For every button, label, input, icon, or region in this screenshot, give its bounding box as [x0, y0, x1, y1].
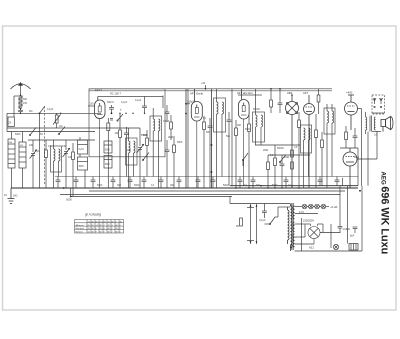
coil L5 osc bandfilter — [126, 128, 138, 188]
capacitor C29 bus — [66, 188, 72, 202]
svg-text:65: 65 — [112, 222, 115, 224]
box padder B2 — [78, 157, 88, 188]
wire stub v6 top — [342, 178, 344, 186]
svg-text:AZ1: AZ1 — [309, 246, 314, 250]
resistor R5 — [115, 113, 122, 188]
svg-text:AB2: AB2 — [287, 91, 293, 95]
node dot b — [60, 113, 61, 114]
svg-text:8µF: 8µF — [350, 235, 355, 238]
svg-text:220/250V: 220/250V — [303, 219, 314, 223]
svg-text:+400: +400 — [346, 91, 353, 95]
resistor R15 — [321, 132, 324, 186]
capacitor C31 electrolytic — [338, 186, 351, 233]
svg-text:2MΩ: 2MΩ — [263, 149, 268, 152]
lamp E2 — [309, 204, 314, 209]
tube V4 — [286, 91, 299, 188]
switch S8 — [279, 155, 286, 163]
svg-text:1M: 1M — [59, 125, 62, 128]
capacitor C6 — [124, 127, 129, 177]
svg-text:AEG 696 WK Luxu: AEG 696 WK Luxu — [378, 172, 390, 255]
svg-text:AF7: AF7 — [303, 91, 309, 95]
coil L8 IF2 pair — [253, 89, 265, 145]
svg-text:0,1µF: 0,1µF — [121, 101, 128, 104]
resistor R21 — [317, 89, 320, 114]
svg-text:70: 70 — [100, 228, 103, 230]
capacitor C23 — [211, 177, 216, 189]
svg-text:20: 20 — [88, 225, 91, 227]
svg-text:45: 45 — [108, 228, 111, 230]
svg-text:50p: 50p — [226, 135, 231, 138]
svg-text:600: 600 — [206, 131, 211, 134]
svg-text:2M: 2M — [29, 110, 32, 113]
svg-text:AL4: AL4 — [354, 155, 359, 159]
capacitor C22 — [196, 177, 201, 189]
box speaker terminals dashed — [372, 95, 385, 114]
svg-text:1MΩ: 1MΩ — [284, 156, 289, 159]
svg-text:249: 249 — [62, 145, 67, 148]
capacitor C2 variable — [30, 140, 38, 188]
wire mains lead N — [256, 204, 258, 244]
svg-text:50: 50 — [92, 228, 95, 230]
tube V5 — [303, 91, 315, 188]
svg-text:300: 300 — [117, 184, 122, 187]
box trimmer M1 — [104, 141, 112, 168]
wire AVC line lower — [7, 131, 95, 133]
lamp E1 — [302, 204, 307, 209]
table tube data — [75, 220, 124, 234]
capacitor C19 — [142, 177, 147, 189]
wire right HT rail segment — [230, 185, 358, 187]
resistor R18 — [291, 150, 294, 169]
capacitor C16 — [91, 177, 96, 189]
text middle labels — [97, 99, 183, 187]
wire det line2 — [268, 154, 310, 156]
wire anode V1 — [98, 92, 163, 97]
wire top HT rail — [89, 88, 332, 90]
capacitor C11 — [227, 112, 232, 186]
capacitor C14 — [56, 177, 61, 189]
capacitor C7 variable — [137, 128, 145, 188]
wire heater 6.3V tap — [295, 211, 318, 214]
capacitor C24 — [238, 177, 243, 189]
svg-text:249: 249 — [29, 144, 34, 147]
svg-text:10: 10 — [4, 193, 7, 197]
svg-text:Batterie: Batterie — [76, 230, 84, 233]
svg-text:0,1µF: 0,1µF — [135, 99, 142, 102]
svg-text:14: 14 — [108, 222, 111, 224]
capacitor C12 — [280, 155, 285, 188]
svg-text:65: 65 — [236, 224, 239, 228]
wire screen feed x211 — [211, 89, 213, 188]
svg-text:65: 65 — [92, 225, 95, 227]
box shield stage 1 — [89, 89, 165, 157]
node dot a — [20, 113, 21, 114]
switch S4 mains — [264, 217, 278, 225]
resistor R20 — [270, 88, 273, 113]
wire left input branch — [14, 96, 21, 117]
resistor R9 — [235, 120, 238, 188]
resistor R7 — [173, 136, 176, 188]
transformer T2 output — [366, 112, 382, 137]
svg-text:5+15: 5+15 — [79, 149, 85, 151]
svg-text:50: 50 — [40, 133, 43, 136]
switch S1 wave change — [39, 107, 45, 189]
svg-text:100: 100 — [68, 156, 73, 159]
wire selector right — [330, 224, 332, 248]
svg-text:50000: 50000 — [253, 108, 260, 111]
switch S3 — [242, 153, 248, 166]
capacitor C25 — [251, 177, 256, 189]
capacitor C10 — [208, 118, 213, 188]
wire lamp row — [295, 205, 338, 209]
svg-text:45: 45 — [120, 222, 123, 224]
box padder B1 — [78, 137, 88, 157]
capacitor C36 — [278, 88, 283, 113]
antenna A1 — [11, 83, 31, 95]
wire HT drop x347 — [347, 186, 349, 244]
svg-text:50000: 50000 — [277, 147, 284, 150]
svg-text:5000: 5000 — [97, 184, 103, 187]
svg-text:35: 35 — [116, 228, 119, 230]
switch S5 — [29, 128, 36, 136]
svg-text:0,5: 0,5 — [374, 134, 378, 137]
svg-text:9: 9 — [116, 222, 118, 224]
tube V8 rectifier — [308, 224, 320, 250]
svg-text:0,5: 0,5 — [48, 145, 52, 148]
svg-text:6: 6 — [120, 228, 122, 230]
capacitor C20 — [159, 177, 164, 189]
tube V7 output — [343, 148, 359, 188]
svg-text:500: 500 — [23, 98, 28, 101]
svg-text:0,1µF: 0,1µF — [47, 108, 54, 111]
resistor R4 screen — [107, 118, 110, 188]
svg-text:300: 300 — [256, 184, 261, 187]
resistor R6 — [143, 130, 148, 177]
wire bus down right — [230, 197, 290, 204]
node dot bus j1 — [63, 187, 65, 189]
svg-text:0,5: 0,5 — [294, 146, 298, 149]
svg-text:Wechsel: Wechsel — [76, 228, 85, 230]
capacitor C27 — [318, 177, 323, 186]
svg-text:0,1: 0,1 — [151, 184, 155, 187]
svg-text:RC 100·7: RC 100·7 — [110, 92, 122, 96]
svg-text:3000: 3000 — [105, 164, 111, 166]
svg-text:gr.+Lösung: gr.+Lösung — [85, 213, 101, 217]
svg-text:5000: 5000 — [66, 198, 72, 202]
lamp E3 — [315, 204, 320, 209]
svg-text:600×9: 600×9 — [107, 101, 114, 104]
svg-text:3000: 3000 — [79, 166, 85, 168]
svg-text:15: 15 — [88, 228, 91, 230]
lamp E4 — [321, 204, 326, 209]
svg-text:2x8µF: 2x8µF — [343, 227, 351, 231]
svg-text:65: 65 — [96, 222, 99, 224]
capacitor C21 — [177, 177, 182, 189]
wire secondary return — [367, 132, 369, 186]
wire det line — [255, 144, 300, 146]
svg-text:0,1: 0,1 — [203, 117, 207, 120]
svg-text:50000: 50000 — [141, 134, 148, 137]
speaker LS — [381, 117, 393, 132]
svg-text:100: 100 — [127, 149, 132, 152]
node dots bus 200s — [235, 185, 300, 189]
wire avc left elbow — [6, 113, 8, 131]
coil L10 output IF pair — [324, 104, 335, 188]
wire AVC line upper — [7, 127, 140, 129]
capacitor C34 — [165, 105, 170, 122]
coil L7 IF1 pair — [214, 89, 226, 188]
resistor R2 — [72, 143, 75, 197]
switch gang dashed — [44, 106, 46, 184]
svg-text:~0,3A: ~0,3A — [330, 205, 338, 209]
svg-text:5000: 5000 — [134, 184, 140, 187]
svg-text:8: 8 — [120, 225, 122, 227]
wire main ground bus — [11, 187, 358, 189]
wire right drop1 — [340, 147, 358, 149]
resistor R16 — [345, 126, 348, 148]
capacitor C30 mains — [259, 206, 267, 222]
coil L6 pair — [150, 96, 163, 189]
resistor R17 line — [236, 218, 242, 228]
svg-text:150: 150 — [23, 102, 28, 105]
wire secondary bottom — [295, 186, 362, 251]
capacitor C28 — [335, 177, 340, 186]
capacitor C17 — [111, 177, 116, 189]
wire selector left — [301, 218, 303, 251]
node dots grid line — [111, 112, 146, 114]
capacitor C33 — [110, 119, 113, 121]
svg-text:90: 90 — [104, 222, 107, 224]
tube V2 — [190, 89, 203, 188]
wire bus line 3 — [60, 194, 340, 196]
svg-text:0,1: 0,1 — [270, 154, 274, 157]
svg-text:EF13: EF13 — [95, 88, 102, 92]
svg-text:40: 40 — [116, 225, 119, 227]
svg-text:5000: 5000 — [15, 133, 21, 136]
wire screen feed x186 — [185, 89, 187, 188]
box ant pad — [8, 117, 14, 127]
capacitor C13 — [353, 128, 358, 148]
capacitor C35 — [350, 227, 357, 238]
resistor R14 — [315, 114, 318, 188]
fuse F1 — [333, 244, 338, 249]
resistor R11 — [267, 155, 270, 188]
tube V1 — [95, 88, 106, 188]
resistor R19 — [170, 115, 173, 140]
coil L4 bandfilter pair — [51, 140, 62, 188]
wire right drop2 — [357, 148, 359, 186]
svg-text:1M: 1M — [115, 131, 119, 135]
wire tuning line — [28, 139, 95, 141]
capacitor C9 coupling — [186, 100, 195, 104]
svg-text:100: 100 — [90, 103, 95, 106]
capacitor C18 — [128, 177, 133, 189]
svg-text:AF7 abc klm: AF7 abc klm — [237, 91, 253, 95]
svg-text:5000: 5000 — [223, 184, 229, 187]
transformer T1 power — [288, 203, 295, 251]
node dot right bus — [359, 190, 361, 192]
capacitor C3 variable — [63, 140, 71, 188]
svg-text:30Ω: 30Ω — [13, 195, 18, 198]
node grid line — [7, 112, 101, 114]
resistor R10 — [248, 115, 251, 188]
svg-text:3: 3 — [112, 225, 114, 227]
coil L1 antenna coil — [19, 94, 28, 110]
resistor R1 — [45, 140, 48, 188]
ground G1 — [4, 188, 18, 204]
node dot bus j2 — [70, 196, 72, 198]
capacitor C26 — [284, 177, 289, 189]
wire heater line — [55, 176, 358, 178]
wire rect anode a — [295, 224, 340, 237]
capacitor C32 — [142, 97, 147, 114]
svg-text:20: 20 — [9, 122, 12, 125]
svg-text:40: 40 — [92, 222, 95, 224]
svg-text:+40: +40 — [201, 82, 206, 85]
node tick top rail — [201, 82, 206, 90]
box voltage selector — [349, 244, 358, 251]
coil L2 wave band ladder — [8, 132, 15, 189]
svg-text:AF7 Gerät: AF7 Gerät — [190, 92, 203, 96]
switch S6 — [58, 127, 65, 135]
wire speaker feed — [357, 109, 377, 186]
svg-text:5000: 5000 — [177, 141, 183, 144]
svg-text:6,3V: 6,3V — [299, 211, 304, 214]
resistor R12 — [274, 145, 277, 188]
wire top rail second — [89, 90, 332, 92]
resistor R8 cathode — [203, 116, 206, 188]
svg-text:5000: 5000 — [105, 150, 111, 152]
tube V3 — [237, 89, 253, 186]
capacitor C15 — [74, 177, 79, 189]
box shield stage 2 — [188, 89, 232, 188]
svg-text:55: 55 — [108, 225, 111, 227]
svg-text:T: T — [120, 108, 122, 112]
capacitor C5b — [109, 105, 114, 113]
capacitor C5 grid — [88, 103, 94, 107]
coil L9 IF3 pair — [301, 125, 312, 188]
text detector labels — [203, 108, 298, 187]
svg-text:7: 7 — [104, 225, 106, 227]
svg-text:6: 6 — [104, 228, 106, 230]
resistor R13 — [298, 112, 301, 188]
switch S7 — [142, 153, 149, 161]
switch S2 — [117, 108, 123, 121]
svg-text:Allstrom: Allstrom — [76, 224, 84, 227]
wire bus line 4 — [70, 196, 232, 198]
wire label line v3 — [238, 94, 262, 96]
svg-text:300: 300 — [237, 124, 242, 127]
svg-text:0,5µF: 0,5µF — [163, 120, 170, 123]
wire primary top — [264, 204, 290, 218]
potentiometer P1 — [53, 113, 61, 128]
svg-text:0,1µF: 0,1µF — [259, 218, 266, 222]
wire bus line 2 — [89, 190, 345, 192]
svg-text:9: 9 — [96, 228, 98, 230]
svg-text:5000: 5000 — [245, 128, 251, 131]
svg-text:5000: 5000 — [272, 184, 278, 187]
svg-text:2: 2 — [112, 228, 114, 230]
svg-text:85: 85 — [100, 225, 103, 227]
coil L3 ladder — [19, 132, 26, 189]
text model title — [378, 172, 390, 255]
tube V6 — [345, 91, 358, 131]
capacitor C8 — [165, 140, 170, 188]
wire mains lead L — [247, 204, 254, 244]
text left labels — [15, 108, 73, 159]
capacitor C1 — [18, 110, 23, 113]
